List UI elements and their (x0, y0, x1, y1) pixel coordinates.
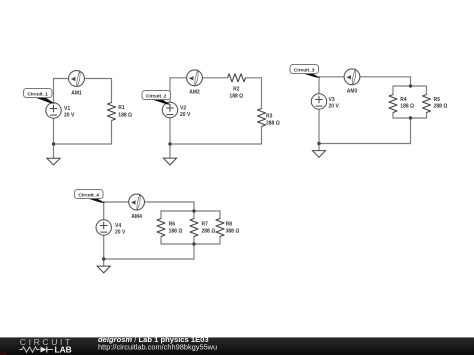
wire top circuit 3 (319, 76, 411, 78)
footer background bar (0, 337, 474, 355)
wire top left circuit 2 (170, 77, 228, 79)
wire ground stem circuit 4 (103, 259, 105, 266)
ammeter AM2 (187, 70, 203, 86)
svg-text:V2: V2 (180, 105, 186, 111)
wire left rail circuit 2 (169, 78, 171, 144)
svg-text:Circuit_2: Circuit_2 (146, 93, 167, 99)
svg-text:R8: R8 (226, 221, 233, 227)
svg-text:R4: R4 (400, 97, 407, 103)
wire right rail upper circuit 2 (261, 78, 263, 109)
resistor R2 (228, 74, 246, 82)
junction node circuit 1 bottom (52, 142, 55, 145)
svg-text:Circuit_3: Circuit_3 (294, 67, 315, 73)
svg-text:188 Ω: 188 Ω (169, 228, 183, 234)
svg-text:288 Ω: 288 Ω (266, 120, 280, 126)
wire right rail upper circuit 1 (111, 79, 113, 103)
wire parallel top rail circuit 3 (393, 86, 427, 95)
svg-text:V3: V3 (329, 97, 335, 103)
footer red logo corner (0, 353, 7, 355)
wire top circuit 4 (104, 201, 194, 203)
svg-text:288 Ω: 288 Ω (434, 104, 448, 110)
svg-text:188 Ω: 188 Ω (229, 94, 243, 100)
wire left rail circuit 1 (53, 79, 55, 145)
logo resistor zigzag (20, 347, 40, 352)
svg-text:20 V: 20 V (329, 104, 340, 110)
voltage source V2 (162, 102, 177, 117)
junction node circuit 3 top (409, 84, 412, 87)
wire bottom circuit 2 (170, 143, 262, 145)
logo diode arrow (41, 347, 47, 353)
svg-text:AM2: AM2 (189, 90, 200, 96)
wire bottom circuit 3 (319, 143, 411, 145)
ground circuit 1 (47, 158, 60, 165)
wire parallel bottom rail circuit 4 (161, 237, 220, 245)
svg-text:R6: R6 (169, 221, 176, 227)
wire feed down circuit 4 (193, 202, 195, 219)
svg-text:20 V: 20 V (180, 112, 191, 118)
wire right rail lower circuit 2 (261, 127, 263, 145)
wire ground stem circuit 2 (169, 144, 171, 158)
svg-text:http://circuitlab.com/chh98bkg: http://circuitlab.com/chh98bkgy55wu (98, 343, 217, 352)
svg-text:20 V: 20 V (115, 230, 126, 236)
wire parallel top rail circuit 4 (161, 211, 220, 219)
wire left rail circuit 3 (318, 77, 320, 144)
svg-text:R3: R3 (266, 113, 273, 119)
svg-text:R7: R7 (202, 221, 209, 227)
ammeter AM4 (129, 194, 145, 210)
svg-text:188 Ω: 188 Ω (400, 104, 414, 110)
svg-text:R5: R5 (434, 97, 441, 103)
ground circuit 4 (97, 266, 110, 273)
resistor R4 (389, 95, 397, 113)
wire from parallel to bottom circuit 3 (410, 118, 412, 144)
svg-text:288 Ω: 288 Ω (202, 228, 216, 234)
wire bottom circuit 4 (104, 258, 194, 260)
junction node circuit 3 parallel bottom (409, 116, 412, 119)
wire from parallel to bottom circuit 4 (193, 237, 195, 260)
wire left rail circuit 4 (103, 202, 105, 259)
ground circuit 3 (312, 151, 325, 158)
resistor R5 (423, 95, 431, 113)
ammeter AM3 (344, 69, 360, 85)
wire top right circuit 2 (246, 77, 262, 79)
callout Circuit_2 (142, 91, 171, 105)
wire top circuit 1 (54, 78, 112, 80)
junction node circuit 2 bottom (168, 142, 171, 145)
resistor R3 (258, 109, 266, 127)
svg-text:188 Ω: 188 Ω (118, 113, 132, 119)
voltage source V4 (96, 220, 111, 235)
junction node circuit 4 bottom left (102, 257, 105, 260)
voltage source V3 (311, 94, 326, 109)
wire bottom circuit 1 (54, 143, 112, 145)
callout Circuit_3 (290, 65, 321, 78)
junction node circuit 3 bottom left (317, 142, 320, 145)
wire feed down circuit 3 (410, 77, 412, 86)
resistor R6 (157, 219, 165, 237)
wire right rail lower circuit 1 (111, 121, 113, 145)
wire ground stem circuit 3 (318, 144, 320, 151)
callout Circuit_4 (75, 190, 106, 204)
resistor R1 (108, 103, 116, 121)
voltage source V1 (46, 103, 61, 118)
svg-text:AM1: AM1 (71, 90, 82, 96)
svg-text:Circuit_4: Circuit_4 (78, 192, 99, 198)
svg-text:20 V: 20 V (64, 113, 75, 119)
ammeter AM1 (69, 71, 85, 87)
svg-text:AM4: AM4 (131, 214, 142, 220)
callout Circuit_1 (24, 89, 56, 104)
svg-text:R2: R2 (233, 87, 240, 93)
svg-text:R1: R1 (118, 105, 125, 111)
wire ground stem circuit 1 (53, 144, 55, 158)
wire parallel bottom rail circuit 3 (393, 113, 427, 119)
resistor R8 (216, 219, 224, 237)
junction node circuit 4 top (192, 209, 195, 212)
junction node circuit 4 parallel bottom (192, 242, 195, 245)
svg-text:Circuit_1: Circuit_1 (27, 91, 48, 97)
svg-text:AM3: AM3 (347, 89, 358, 95)
ground circuit 2 (163, 158, 176, 165)
svg-text:V4: V4 (115, 223, 121, 229)
svg-text:V1: V1 (64, 106, 70, 112)
resistor R7 (190, 219, 198, 237)
svg-text:LAB: LAB (55, 345, 72, 355)
svg-text:388 Ω: 388 Ω (226, 228, 240, 234)
